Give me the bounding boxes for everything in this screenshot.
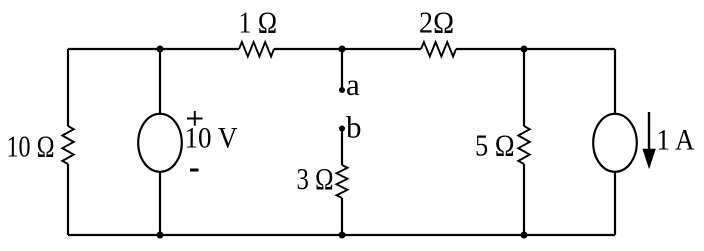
svg-text:1 A: 1 A <box>657 124 695 157</box>
svg-text:10 Ω: 10 Ω <box>7 129 55 164</box>
svg-text:3 Ω: 3 Ω <box>297 161 334 196</box>
svg-text:5 Ω: 5 Ω <box>475 128 515 163</box>
svg-text:a: a <box>346 67 360 102</box>
svg-text:10 V: 10 V <box>185 122 238 155</box>
svg-text:1 Ω: 1 Ω <box>239 5 278 40</box>
svg-text:b: b <box>346 109 362 144</box>
svg-text:2Ω: 2Ω <box>419 5 454 40</box>
